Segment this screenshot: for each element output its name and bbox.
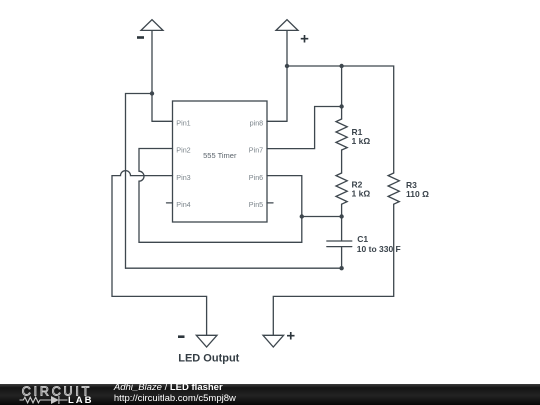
node pin7/R1 junction xyxy=(339,104,343,108)
resistor R3 xyxy=(388,173,399,204)
svg-text:LAB: LAB xyxy=(68,395,94,405)
node +V/pin8 junction xyxy=(285,64,289,68)
node R1 top on rail xyxy=(339,64,343,68)
label - LED output xyxy=(178,335,185,338)
node pin6 vertical junction xyxy=(300,214,304,218)
footer line 1 xyxy=(114,383,223,393)
wire pin8 xyxy=(267,120,287,122)
svg-text:Pin5: Pin5 xyxy=(249,200,263,209)
svg-text:pin8: pin8 xyxy=(250,118,264,127)
power supply -V arrow xyxy=(141,20,163,122)
node C1 bottom junction xyxy=(339,266,343,270)
footer line 2 xyxy=(114,394,236,404)
footer bar xyxy=(0,384,540,405)
wire pin7 xyxy=(267,107,342,149)
svg-text:Pin4: Pin4 xyxy=(176,200,190,209)
resistor R1 xyxy=(336,119,347,150)
LED output plus arrow xyxy=(263,335,284,347)
IC U1 555 timer box xyxy=(173,101,268,222)
svg-text:1 kΩ: 1 kΩ xyxy=(352,189,371,199)
svg-text:+: + xyxy=(286,328,295,345)
wire C1 bottom rail xyxy=(126,267,342,269)
svg-text:Pin3: Pin3 xyxy=(176,173,190,182)
capacitor C1 xyxy=(327,217,352,269)
LED output minus arrow xyxy=(196,335,217,347)
wire R1 top lead xyxy=(341,66,343,119)
svg-text:C1: C1 xyxy=(357,234,368,244)
pin5 stub xyxy=(267,202,273,204)
wire pin3 to LED output minus xyxy=(112,171,207,336)
label R1 value xyxy=(352,127,430,254)
label - supply xyxy=(137,36,144,39)
wire R2 bottom lead xyxy=(341,204,343,216)
footer logo CIRCUITLAB xyxy=(0,384,112,405)
svg-text:LED Output: LED Output xyxy=(178,353,239,365)
pin4 stub xyxy=(167,202,173,204)
wire R1 to R2 xyxy=(341,150,343,173)
svg-text:Pin6: Pin6 xyxy=(249,173,263,182)
wire R3 to LED output plus xyxy=(273,204,393,335)
pin labels left xyxy=(176,118,190,209)
wire mid rail pin6-node to R2/C1 node xyxy=(302,216,342,218)
node -V/pin1 junction xyxy=(150,91,154,95)
svg-text:Pin7: Pin7 xyxy=(249,146,263,155)
wire pin6 to pin2 xyxy=(139,149,302,243)
pin labels right xyxy=(249,118,263,209)
svg-text:Pin2: Pin2 xyxy=(176,146,190,155)
resistor R2 xyxy=(336,173,347,204)
svg-text:1 kΩ: 1 kΩ xyxy=(352,136,371,146)
svg-text:555 Timer: 555 Timer xyxy=(203,151,237,160)
power supply +V arrow xyxy=(276,20,298,122)
node R2/C1 junction xyxy=(339,214,343,218)
wire pin1 xyxy=(152,120,173,122)
svg-text:Pin1: Pin1 xyxy=(176,118,190,127)
svg-text:110 Ω: 110 Ω xyxy=(406,189,429,199)
wire -V branch to left vertical xyxy=(126,94,153,269)
wire top rail +V to R3 xyxy=(287,66,394,173)
svg-text:10 to 330 F: 10 to 330 F xyxy=(357,244,401,254)
svg-text:+: + xyxy=(300,30,309,47)
